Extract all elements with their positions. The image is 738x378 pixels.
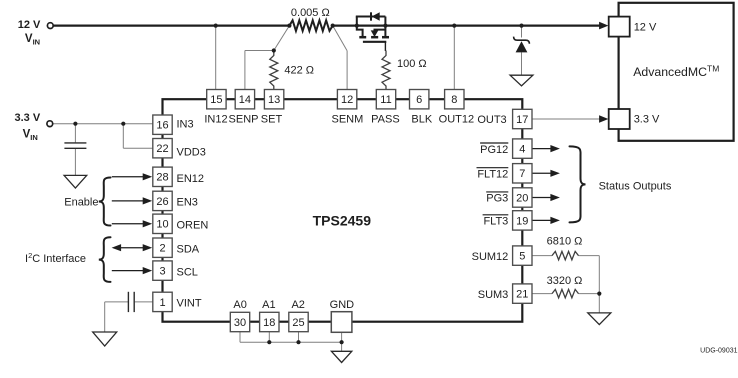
svg-text:I2C Interface: I2C Interface — [25, 251, 86, 265]
svg-text:3.3 V: 3.3 V — [15, 112, 41, 124]
svg-text:1: 1 — [159, 297, 165, 309]
svg-text:OUT3: OUT3 — [477, 114, 506, 126]
svg-text:2: 2 — [159, 243, 165, 255]
svg-text:SDA: SDA — [177, 243, 200, 255]
svg-text:Status Outputs: Status Outputs — [599, 180, 672, 192]
svg-text:28: 28 — [156, 172, 168, 184]
svg-text:VINT: VINT — [177, 297, 202, 309]
svg-text:OREN: OREN — [177, 220, 209, 232]
svg-text:AdvancedMCTM: AdvancedMCTM — [633, 64, 719, 79]
svg-text:20: 20 — [516, 192, 528, 204]
svg-text:TPS2459: TPS2459 — [313, 212, 372, 228]
svg-text:SCL: SCL — [177, 266, 198, 278]
svg-text:SUM3: SUM3 — [478, 289, 509, 301]
svg-text:IN12: IN12 — [204, 113, 227, 125]
svg-text:5: 5 — [519, 251, 525, 263]
svg-text:6810 Ω: 6810 Ω — [547, 235, 583, 247]
svg-text:3320 Ω: 3320 Ω — [547, 275, 583, 287]
svg-text:8: 8 — [451, 94, 457, 106]
svg-text:EN3: EN3 — [177, 197, 198, 209]
svg-text:EN12: EN12 — [177, 173, 205, 185]
svg-text:17: 17 — [516, 114, 528, 126]
svg-text:A1: A1 — [262, 299, 275, 311]
svg-text:SET: SET — [261, 113, 283, 125]
svg-text:21: 21 — [516, 289, 528, 301]
svg-text:3: 3 — [159, 266, 165, 278]
svg-text:UDG-09031: UDG-09031 — [700, 348, 737, 355]
svg-text:OUT12: OUT12 — [439, 113, 474, 125]
svg-text:18: 18 — [263, 317, 275, 329]
svg-text:A0: A0 — [233, 299, 246, 311]
svg-text:22: 22 — [156, 143, 168, 155]
svg-text:10: 10 — [156, 219, 168, 231]
svg-text:422 Ω: 422 Ω — [284, 65, 314, 77]
svg-text:6: 6 — [416, 94, 422, 106]
svg-text:14: 14 — [239, 94, 251, 106]
svg-text:12 V: 12 V — [18, 19, 41, 31]
svg-text:100 Ω: 100 Ω — [397, 58, 427, 70]
svg-text:SENM: SENM — [332, 113, 364, 125]
svg-text:SUM12: SUM12 — [472, 251, 509, 263]
svg-text:4: 4 — [519, 144, 525, 156]
svg-text:PG3: PG3 — [486, 193, 508, 205]
svg-text:SENP: SENP — [229, 113, 259, 125]
svg-text:GND: GND — [330, 299, 355, 311]
svg-text:Enable: Enable — [64, 196, 98, 208]
svg-text:0.005 Ω: 0.005 Ω — [291, 7, 330, 19]
svg-text:13: 13 — [268, 94, 280, 106]
svg-text:15: 15 — [210, 94, 222, 106]
svg-text:30: 30 — [234, 317, 246, 329]
svg-text:11: 11 — [380, 94, 391, 106]
svg-text:IN3: IN3 — [177, 118, 194, 130]
svg-text:PASS: PASS — [371, 113, 400, 125]
svg-text:26: 26 — [156, 196, 168, 208]
svg-text:7: 7 — [519, 168, 525, 180]
svg-text:12: 12 — [341, 94, 353, 106]
svg-text:A2: A2 — [291, 299, 304, 311]
svg-text:25: 25 — [292, 317, 304, 329]
svg-text:BLK: BLK — [411, 113, 432, 125]
svg-text:VDD3: VDD3 — [177, 146, 206, 158]
svg-text:FLT3: FLT3 — [483, 216, 508, 228]
svg-text:12 V: 12 V — [634, 21, 657, 33]
svg-text:FLT12: FLT12 — [477, 169, 508, 181]
svg-text:PG12: PG12 — [480, 144, 508, 156]
svg-text:19: 19 — [516, 215, 528, 227]
svg-text:16: 16 — [156, 120, 168, 132]
svg-text:3.3 V: 3.3 V — [634, 114, 660, 126]
